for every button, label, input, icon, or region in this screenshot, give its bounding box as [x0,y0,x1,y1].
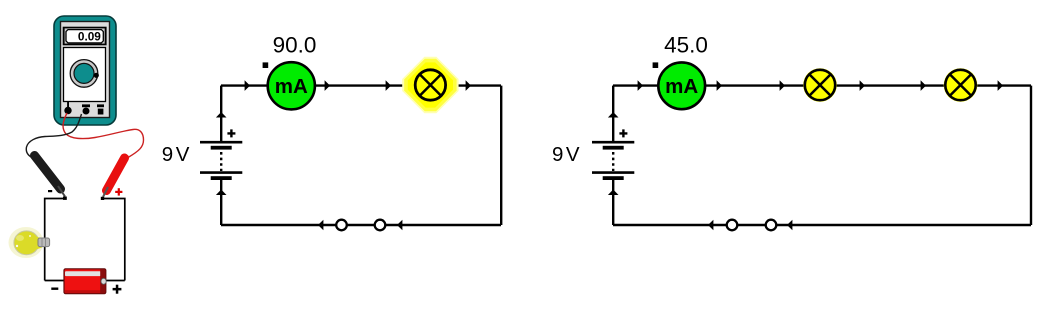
wire bottom (circuit 2) [613,224,1031,226]
current arrow [216,190,227,196]
current arrow [216,112,227,118]
switch SW2 [727,220,777,231]
current arrow [780,80,785,91]
multimeter display [63,27,107,46]
minus label at black probe [48,190,52,192]
minus label of photo cell [51,288,58,290]
current arrow [638,80,643,91]
plus label at red probe [115,188,122,195]
ammeter probe dot (circuit 2) [653,62,659,68]
wire top (circuit 1) [221,84,501,86]
mini circuit wire bottom segment [45,280,125,282]
black test lead wire [26,114,81,159]
current arrow [860,80,865,91]
switch SW1 [336,220,385,231]
current arrow [245,80,250,91]
wire top (circuit 2) [613,84,1031,86]
red test lead wire [63,113,143,158]
current arrow [717,80,722,91]
current arrow [386,80,391,91]
battery B1 9V [200,129,242,180]
multimeter jack 2 [82,104,90,114]
current arrow [608,190,619,196]
lamp L3 [944,68,978,102]
wire left lower (circuit 2) [612,180,614,225]
red probe [101,158,125,200]
current arrow [608,112,619,118]
current arrow [397,220,402,231]
battery (photo cell) [64,269,106,294]
svg-text:mA: mA [665,75,698,98]
lamp L1 glow halo [402,57,458,113]
svg-text:0.09: 0.09 [78,31,101,43]
wire left lower (circuit 1) [220,180,222,225]
mini circuit wire top-right segment [103,199,125,281]
svg-text:9V: 9V [552,143,582,166]
svg-text:90.0: 90.0 [273,32,317,57]
ammeter U2 [658,62,705,109]
current arrow [787,220,792,231]
svg-text:45.0: 45.0 [664,32,708,57]
wire right (circuit 1) [500,86,502,225]
ammeter probe dot (circuit 1) [263,62,269,68]
black probe [35,156,67,200]
current arrow [998,80,1003,91]
multimeter jack 1 [64,102,71,115]
wire right (circuit 2) [1030,86,1032,225]
multimeter knob [70,60,99,88]
plus label of photo cell [113,285,122,294]
svg-text:9V: 9V [162,143,192,166]
current arrow [466,80,471,91]
lamp L1 [415,70,445,100]
multimeter knob panel [64,48,106,102]
current arrow [708,220,713,231]
current arrow [318,220,323,231]
current arrow [921,80,926,91]
wire bottom (circuit 1) [221,224,501,226]
lamp L2 [803,68,837,102]
ammeter U1 [268,62,315,109]
mini circuit wire top-left segment [45,199,66,281]
multimeter M1 body [54,16,116,125]
battery B2 9V [592,129,634,180]
svg-text:mA: mA [275,75,308,98]
lamp (photo bulb) glowing [9,227,50,258]
multimeter jack 3 [97,104,104,114]
wire left upper (circuit 2) [612,86,614,142]
current arrow [325,80,330,91]
wire left upper (circuit 1) [220,86,222,142]
